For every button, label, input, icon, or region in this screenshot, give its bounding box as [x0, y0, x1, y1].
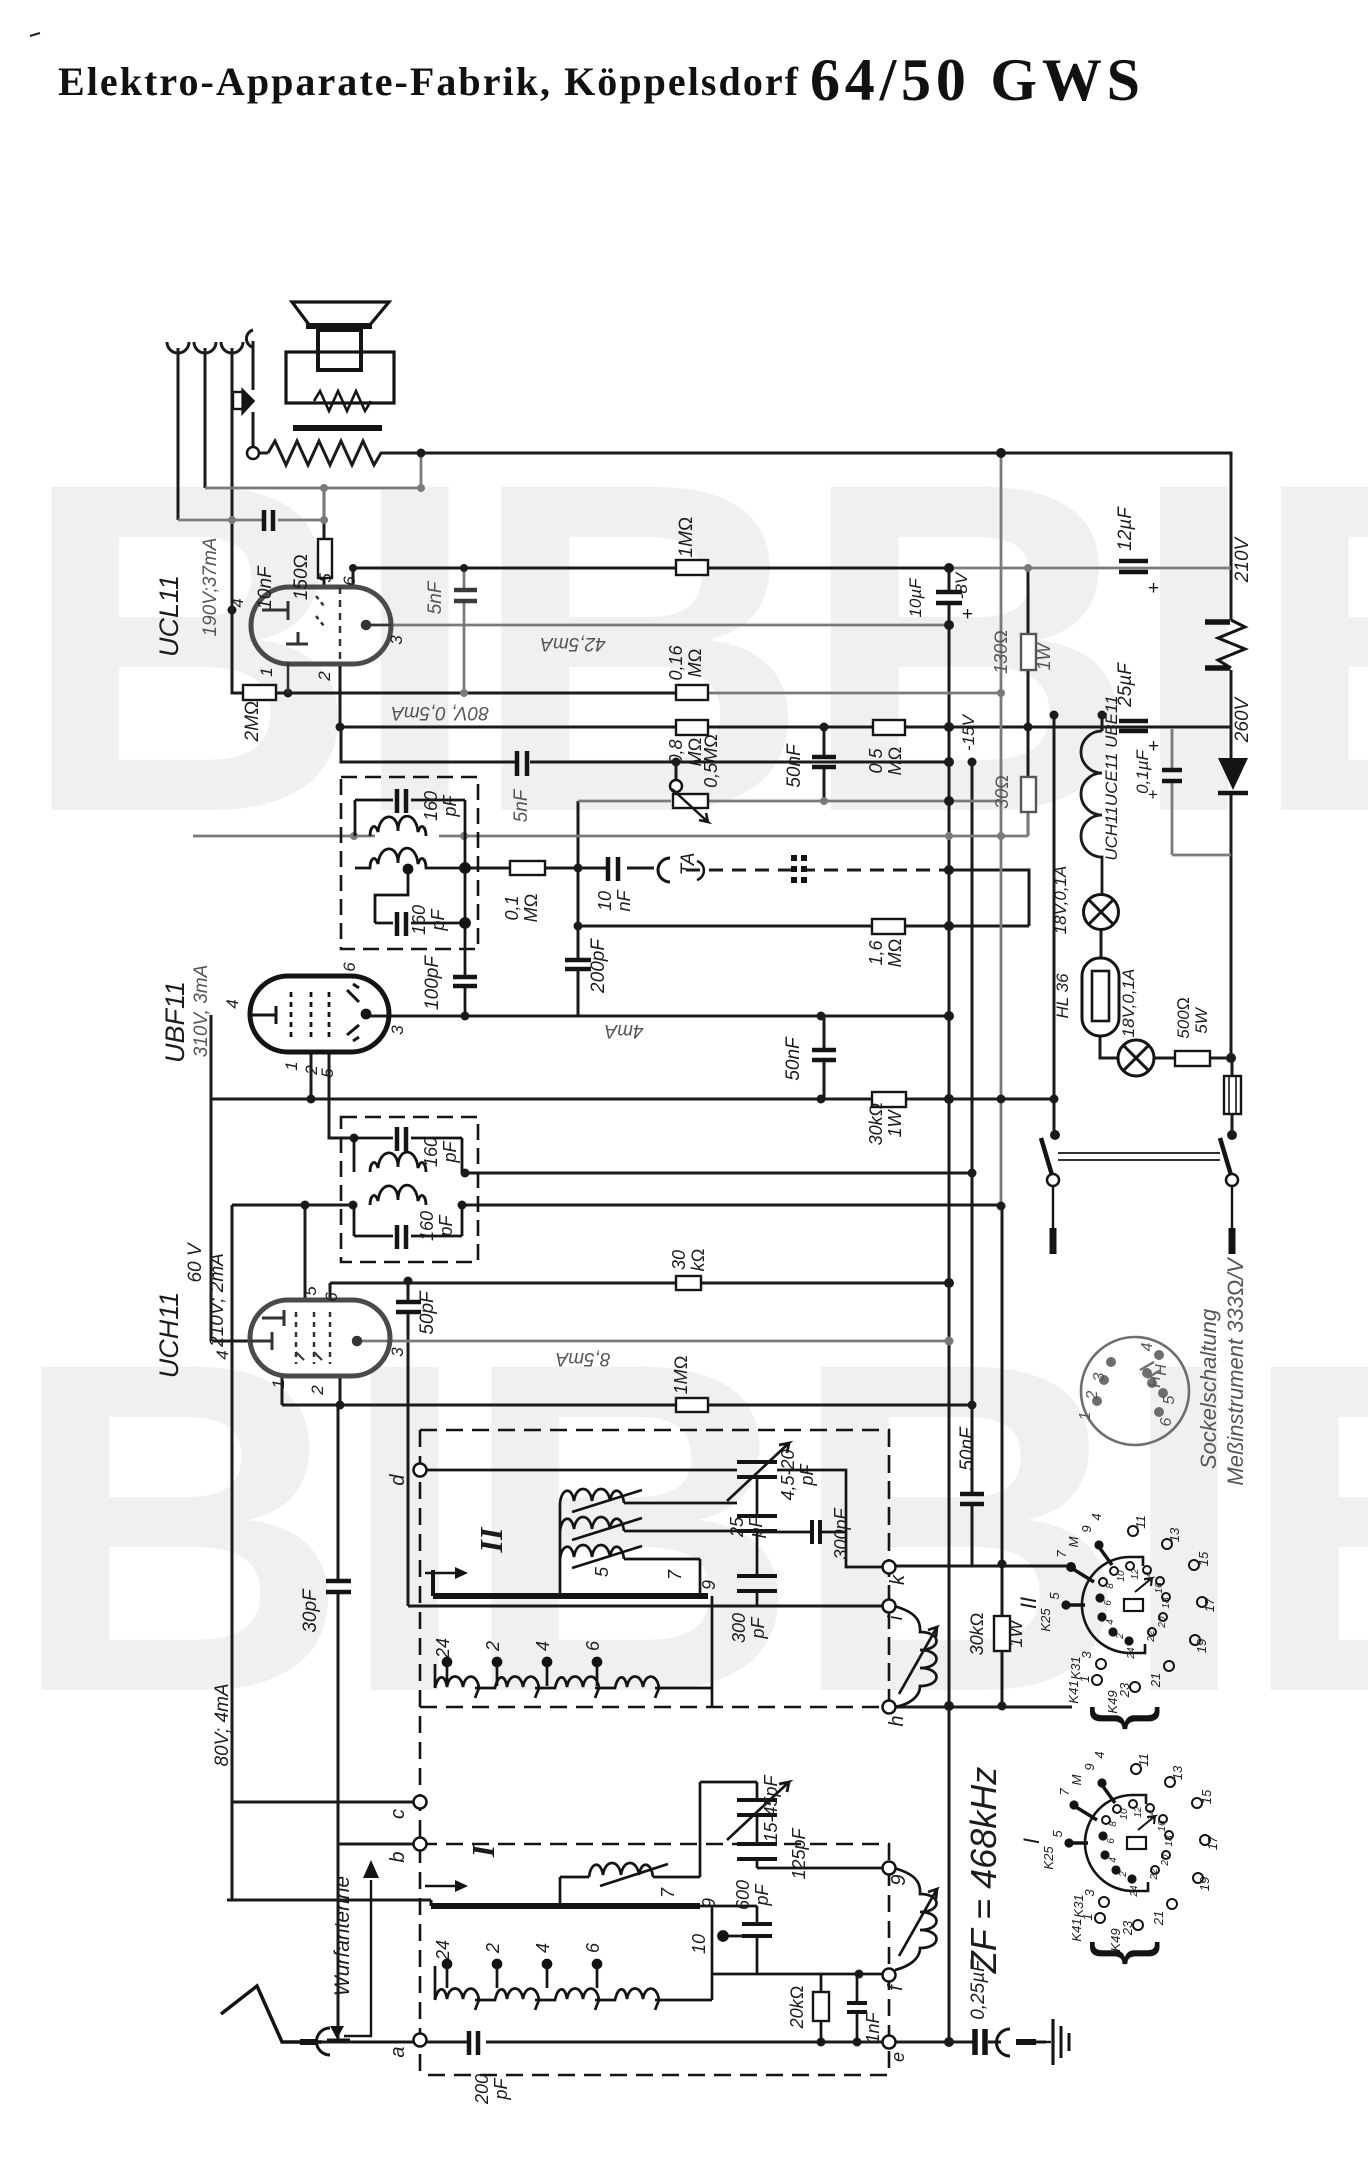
capacitor 10uF electrolytic — [936, 592, 962, 603]
lamp2 to 500ohm to rail — [1154, 1057, 1231, 1060]
node c — [414, 1796, 427, 1809]
output transformer box — [286, 352, 394, 403]
row 1099 — [211, 1098, 1054, 1101]
svg-text:300: 300 — [729, 1613, 749, 1643]
svg-text:e: e — [888, 2052, 908, 2062]
svg-text:4mA: 4mA — [604, 1020, 643, 1041]
vertical x1028 130/30 ohm — [1027, 568, 1030, 836]
svg-text:8: 8 — [1108, 1821, 1119, 1827]
capacitor 300pF lower — [737, 1576, 777, 1591]
svg-text:8,5mA: 8,5mA — [556, 1348, 611, 1369]
svg-text:80V; 4mA: 80V; 4mA — [212, 1683, 233, 1766]
node f — [883, 1969, 896, 1982]
heater chain stub — [1101, 715, 1104, 731]
vertical x1002 lower with 30k resistor — [1001, 1207, 1004, 1707]
svg-text:21: 21 — [1151, 1911, 1166, 1926]
svg-text:50nF: 50nF — [783, 1036, 804, 1081]
svg-text:kΩ: kΩ — [688, 1249, 708, 1272]
pin5 stub UCL / 150 ohm column — [323, 488, 326, 588]
svg-text:160: 160 — [421, 791, 441, 821]
svg-text:13: 13 — [1167, 1527, 1182, 1542]
wire to 300pF — [757, 1470, 883, 1567]
row 868 TA row — [465, 867, 654, 870]
UBF11 internals — [250, 984, 370, 1041]
svg-text:UCH11UCE11 UBE11: UCH11UCE11 UBE11 — [1102, 695, 1121, 860]
svg-text:2MΩ: 2MΩ — [242, 701, 263, 743]
gray row 693 right — [708, 692, 1001, 695]
resistor 1.6MOhm — [872, 919, 905, 934]
row 1706 — [895, 1706, 1072, 1709]
svg-text:310V, 3mA: 310V, 3mA — [191, 965, 212, 1058]
row 762 — [341, 727, 949, 762]
pin6 stub UCL — [352, 568, 355, 588]
arrow band II — [425, 1572, 455, 1575]
svg-text:25: 25 — [727, 1516, 747, 1538]
svg-text:5: 5 — [318, 1068, 337, 1078]
capacitor 25uF electrolytic — [1119, 721, 1148, 731]
svg-text:pF: pF — [752, 1883, 772, 1906]
svg-text:4: 4 — [1089, 1513, 1104, 1520]
svg-text:h: h — [886, 1715, 908, 1726]
svg-text:125pF: 125pF — [789, 1827, 809, 1879]
node h — [883, 1701, 896, 1714]
arrow band I — [425, 1885, 455, 1888]
svg-text:0,5: 0,5 — [866, 748, 886, 774]
svg-text:1MΩ: 1MΩ — [676, 517, 697, 558]
svg-text:23: 23 — [1120, 1920, 1135, 1936]
capacitor 30pF — [326, 1581, 351, 1592]
svg-text:Wurfantenne: Wurfantenne — [331, 1876, 354, 1996]
field coil zigzag — [268, 441, 421, 465]
box I wave band tap dots — [447, 1966, 597, 1988]
svg-text:20: 20 — [1157, 1616, 1168, 1629]
30pF column — [337, 1405, 340, 2042]
IF1 tap — [375, 868, 408, 923]
svg-text:15-45pF: 15-45pF — [761, 1774, 781, 1842]
resistor 20kOhm — [821, 1974, 857, 2042]
svg-text:210V; 2mA: 210V; 2mA — [207, 1253, 228, 1348]
svg-text:6: 6 — [583, 1640, 603, 1651]
earth coupling jack — [996, 2029, 1010, 2056]
svg-text:1,6: 1,6 — [866, 940, 886, 966]
svg-text:Elektro-Apparate-Fabrik, Köppe: Elektro-Apparate-Fabrik, Köppelsdorf — [58, 59, 799, 104]
IF2 bottom cap 160pF — [354, 1205, 462, 1236]
switch link — [1058, 1153, 1220, 1160]
svg-text:{: { — [1077, 1941, 1160, 1966]
UCH pin2 stub — [339, 1376, 342, 1405]
svg-text:MΩ: MΩ — [685, 649, 705, 678]
socket keyway — [1140, 1362, 1161, 1378]
IF2 coil secondary — [370, 1185, 426, 1205]
heater chain bumps — [1081, 731, 1102, 894]
capacitor 50nF second — [812, 1050, 836, 1060]
svg-text:24: 24 — [433, 1940, 453, 1961]
svg-text:300pF: 300pF — [831, 1507, 851, 1559]
TA jack — [658, 858, 670, 882]
wire right rail lower — [1231, 670, 1232, 1133]
svg-text:b: b — [387, 1851, 409, 1862]
svg-text:200pF: 200pF — [588, 938, 609, 994]
capacitor 300pF upper — [812, 1520, 820, 1544]
svg-text:11: 11 — [1133, 1515, 1148, 1529]
svg-text:9: 9 — [699, 1580, 719, 1590]
svg-text:22: 22 — [1146, 1630, 1157, 1643]
svg-text:6: 6 — [583, 1942, 603, 1953]
svg-text:pF: pF — [797, 1463, 817, 1486]
transformer primary zigzag — [314, 391, 371, 411]
svg-text:210V: 210V — [1232, 535, 1253, 583]
svg-text:42,5mA: 42,5mA — [540, 633, 605, 654]
vertical x972 — [894, 762, 972, 1566]
svg-text:II: II — [1016, 1597, 1041, 1609]
node e — [883, 2036, 896, 2049]
svg-text:UBF11: UBF11 — [160, 981, 190, 1063]
gray 5nF1 column — [463, 568, 466, 693]
socket circle Sockelschaltung — [1081, 1337, 1189, 1445]
tuning box II dashed — [420, 1430, 889, 2075]
svg-text:160: 160 — [409, 905, 429, 935]
svg-text:10µF: 10µF — [906, 577, 925, 618]
wafer switch I — [1071, 1785, 1155, 1891]
resistor 130 Ohm 1W — [1021, 634, 1036, 670]
fuse — [1224, 1076, 1241, 1114]
box II wave band tap dots — [447, 1664, 597, 1686]
svg-text:17: 17 — [1202, 1597, 1217, 1612]
oscillator coil II — [894, 1606, 937, 1707]
svg-text:2: 2 — [1115, 1633, 1126, 1640]
svg-text:7: 7 — [1057, 1788, 1072, 1796]
resistor 30kOhm 1W — [872, 1092, 906, 1107]
svg-text:4: 4 — [1105, 1619, 1116, 1625]
svg-text:4: 4 — [1139, 1342, 1156, 1351]
svg-text:500Ω: 500Ω — [1174, 997, 1193, 1038]
box I top coil — [589, 1863, 653, 1877]
IF transformer box 2 — [341, 1117, 478, 1262]
lamp1 to HL36 — [1100, 929, 1103, 958]
row 1900 — [227, 1899, 431, 1902]
row 1564 — [894, 1565, 1071, 1568]
switch blades — [1041, 1138, 1231, 1175]
UCH pin5 stub — [329, 1283, 332, 1300]
svg-text:3: 3 — [1079, 1651, 1094, 1659]
svg-text:i: i — [885, 1615, 907, 1620]
lamp 18V 0.1A first — [1084, 895, 1119, 930]
svg-text:M: M — [1069, 1774, 1084, 1785]
svg-text:4: 4 — [533, 1943, 553, 1953]
svg-text:16: 16 — [1157, 1820, 1168, 1832]
row 568 grid — [353, 567, 949, 570]
row 727 — [340, 664, 1231, 727]
svg-text:pF: pF — [746, 1515, 766, 1538]
magnet bar — [293, 425, 382, 431]
svg-text:II: II — [473, 1526, 509, 1553]
svg-text:K25: K25 — [1038, 1608, 1053, 1632]
capacitor 1nF — [847, 2003, 867, 2012]
row 1606 osc grid — [408, 1605, 883, 1608]
svg-text:{: { — [1077, 1706, 1160, 1731]
svg-text:d: d — [387, 1474, 409, 1486]
gray row 1341 8.5mA — [357, 1340, 949, 1343]
svg-text:2: 2 — [483, 1641, 503, 1652]
svg-text:pF: pF — [491, 2077, 511, 2100]
svg-text:Meßinstrument 333Ω/V: Meßinstrument 333Ω/V — [1223, 1256, 1248, 1486]
svg-text:MΩ: MΩ — [885, 747, 905, 776]
row 1844 to node b — [338, 1843, 414, 1846]
svg-text:Sockelschaltung: Sockelschaltung — [1196, 1308, 1221, 1469]
row 693 screen — [276, 692, 676, 695]
svg-text:18: 18 — [1164, 1835, 1175, 1847]
svg-text:160: 160 — [417, 1211, 437, 1241]
svg-text:3: 3 — [388, 1025, 407, 1035]
svg-text:50nF: 50nF — [784, 743, 805, 788]
svg-text:HL 36: HL 36 — [1053, 973, 1072, 1019]
svg-text:pF: pF — [748, 1616, 768, 1639]
svg-text:5nF: 5nF — [511, 788, 532, 822]
svg-text:2: 2 — [1084, 1390, 1101, 1400]
svg-text:6: 6 — [1103, 1600, 1114, 1606]
resistor 150 Ohm — [318, 539, 332, 578]
svg-text:17: 17 — [1205, 1835, 1220, 1850]
svg-text:160: 160 — [421, 1137, 441, 1167]
heater vertical 1 — [177, 348, 180, 520]
power resistor zigzag with bars — [1205, 620, 1245, 668]
oscillator coil I — [894, 1868, 937, 1970]
heater vertical 3 — [232, 348, 243, 693]
IF1 top cap 160pF — [355, 800, 465, 1016]
svg-text:19: 19 — [1197, 1877, 1212, 1891]
node b — [414, 1838, 427, 1851]
svg-text:1: 1 — [1077, 1675, 1092, 1682]
gray row 625 plate — [366, 624, 949, 627]
svg-text:14: 14 — [1146, 1809, 1157, 1821]
UCH pin6 column — [304, 1205, 307, 1300]
svg-text:18: 18 — [1161, 1597, 1172, 1609]
svg-text:30Ω: 30Ω — [992, 775, 1012, 809]
diode lead — [1230, 729, 1233, 758]
TA row solid right — [949, 870, 1029, 926]
IF2 top cap 160pF — [354, 1138, 462, 1172]
resistor 0.5MOhm — [873, 720, 905, 735]
capacitor 200pF — [565, 960, 591, 969]
svg-text:15: 15 — [1199, 1789, 1214, 1804]
speaker neck — [318, 330, 361, 370]
svg-text:2: 2 — [308, 1385, 327, 1396]
svg-text:1: 1 — [282, 1061, 301, 1070]
capacitor 12uF electrolytic — [1119, 561, 1148, 572]
tube UCL11 — [251, 587, 391, 664]
svg-text:+: + — [962, 604, 973, 625]
capacitor 5nF first — [454, 590, 477, 601]
row 1283 — [330, 1282, 949, 1285]
resistor 30kOhm 1W lower — [994, 1616, 1010, 1651]
svg-text:k: k — [887, 1574, 909, 1585]
svg-text:ZF = 468kHz: ZF = 468kHz — [963, 1767, 1004, 1974]
svg-text:100pF: 100pF — [422, 955, 443, 1010]
capacitor 5nF second — [517, 751, 527, 776]
UCH11 internals — [250, 1310, 361, 1364]
terminal 10 — [719, 1932, 728, 1941]
HL36 to lamp2 — [1100, 1036, 1118, 1058]
antenna symbol — [221, 1986, 322, 2042]
svg-text:260V: 260V — [1232, 695, 1253, 743]
svg-text:150Ω: 150Ω — [291, 554, 312, 600]
svg-text:24: 24 — [1129, 1885, 1140, 1898]
svg-text:1: 1 — [269, 1379, 288, 1388]
wire top rail — [421, 453, 1231, 620]
gray row 568 right — [949, 567, 1231, 570]
svg-text:1W: 1W — [1034, 641, 1054, 670]
svg-text:11: 11 — [1136, 1753, 1151, 1767]
svg-text:80V, 0,5mA: 80V, 0,5mA — [391, 702, 489, 723]
svg-text:6: 6 — [340, 576, 359, 586]
svg-text:10: 10 — [1116, 1570, 1127, 1582]
capacitor 50nF first — [812, 757, 836, 767]
trimmer 15-45pF — [737, 1800, 777, 1815]
svg-text:3: 3 — [1091, 1372, 1108, 1381]
svg-text:5: 5 — [1050, 1830, 1065, 1838]
pot slider column x578 — [577, 801, 580, 1016]
resistor 1MOhm second — [676, 1398, 708, 1412]
UCL11 internals — [262, 587, 391, 693]
vertical x211 UBF pin4 — [211, 1015, 250, 1341]
tube UCH11 — [250, 1300, 390, 1376]
svg-text:30kΩ: 30kΩ — [866, 1103, 886, 1146]
svg-text:a: a — [387, 2046, 409, 2057]
tuning box I dashed — [420, 1844, 889, 2075]
svg-text:0,5MΩ: 0,5MΩ — [701, 734, 721, 788]
svg-text:0,1: 0,1 — [502, 895, 522, 920]
row 1205 — [232, 1204, 1001, 1207]
svg-text:6: 6 — [1158, 1417, 1175, 1426]
resistor 500 Ohm 5W — [1175, 1051, 1210, 1066]
field coil terminal circle — [247, 447, 259, 459]
capacitor 10nF second — [608, 857, 618, 881]
vertical x1054 — [1053, 715, 1056, 1135]
svg-text:18V,0,1A: 18V,0,1A — [1119, 969, 1138, 1038]
svg-text:24: 24 — [433, 1638, 453, 1659]
svg-text:22: 22 — [1149, 1868, 1160, 1881]
capacitor 600pF — [742, 1924, 772, 1936]
box I f row — [712, 1973, 883, 1976]
svg-text:5: 5 — [1161, 1395, 1178, 1404]
tube UBF11 — [250, 976, 389, 1052]
svg-text:4: 4 — [223, 999, 242, 1008]
svg-text:12: 12 — [1133, 1806, 1144, 1818]
Wurfantenne lead — [344, 1880, 371, 2036]
svg-text:K25: K25 — [1041, 1846, 1056, 1870]
svg-text:30kΩ: 30kΩ — [967, 1613, 987, 1656]
svg-text:18V,0,1A: 18V,0,1A — [1051, 866, 1070, 935]
svg-text:1: 1 — [257, 667, 276, 676]
svg-text:4: 4 — [213, 1350, 232, 1359]
IF2 coil primary — [370, 1152, 426, 1172]
capacitor 0.25uF — [975, 2029, 985, 2055]
svg-text:16: 16 — [1154, 1582, 1165, 1594]
gray row 488 — [205, 453, 421, 488]
svg-text:-8V: -8V — [952, 571, 971, 599]
svg-text:3: 3 — [387, 635, 406, 645]
svg-text:2: 2 — [1118, 1871, 1129, 1878]
vertical x232 80V4mA — [231, 1205, 234, 1900]
svg-text:19: 19 — [1194, 1639, 1209, 1653]
wiper stub — [675, 762, 678, 780]
box II coil 2 — [560, 1517, 624, 1531]
svg-text:6: 6 — [340, 962, 359, 972]
box I thick bus — [431, 1903, 700, 1909]
trimmer 4.5-20pF — [737, 1462, 777, 1477]
svg-text:7: 7 — [658, 1887, 678, 1898]
svg-text:pF: pF — [440, 1140, 460, 1163]
node a — [414, 2034, 427, 2047]
gray row 836 — [193, 812, 1028, 836]
gray vertical x1001 — [1000, 453, 1003, 1207]
svg-text:pF: pF — [428, 908, 448, 931]
svg-text:6: 6 — [322, 1292, 341, 1302]
svg-text:TA: TA — [678, 853, 699, 876]
svg-text:1: 1 — [1077, 1412, 1094, 1421]
svg-text:12: 12 — [1130, 1568, 1141, 1580]
svg-text:M: M — [1066, 1536, 1081, 1547]
svg-text:pF: pF — [436, 1214, 456, 1237]
svg-text:UCL11: UCL11 — [154, 575, 184, 657]
svg-text:200: 200 — [472, 2074, 492, 2105]
svg-text:K41: K41 — [1069, 1918, 1084, 1941]
svg-text:60 V: 60 V — [185, 1241, 206, 1282]
svg-text:pF: pF — [440, 794, 460, 817]
resistor 30kOhm second — [676, 1276, 701, 1290]
svg-text:5nF: 5nF — [425, 580, 446, 614]
svg-text:50pF: 50pF — [417, 1290, 438, 1335]
svg-text:4: 4 — [1092, 1751, 1107, 1758]
capacitor 0.1uF — [1162, 770, 1182, 781]
UBF pin1 stub — [310, 1052, 313, 1099]
svg-text:9: 9 — [1082, 1763, 1097, 1770]
svg-text:1nF: 1nF — [863, 2011, 883, 2043]
svg-text:0,1µF: 0,1µF — [1133, 748, 1152, 793]
svg-text:2: 2 — [315, 671, 334, 682]
capacitor 10nF — [264, 510, 273, 531]
TA dashed row — [686, 869, 949, 872]
box II coil 1 — [560, 1489, 624, 1503]
IF1 coil secondary — [355, 848, 465, 868]
svg-text:9: 9 — [699, 1898, 719, 1908]
capacitor 50pF — [396, 1302, 421, 1312]
node d — [414, 1464, 427, 1477]
stray mark top left — [30, 33, 40, 36]
svg-text:7: 7 — [665, 1569, 685, 1580]
box II coil 3 — [560, 1545, 624, 1559]
driver triangle — [243, 391, 253, 412]
heater vertical 2 — [204, 348, 207, 488]
svg-text:K41: K41 — [1066, 1680, 1081, 1703]
svg-text:3: 3 — [388, 1347, 407, 1357]
node i — [883, 1600, 896, 1613]
svg-text:5W: 5W — [1192, 1006, 1211, 1033]
svg-text:UCH11: UCH11 — [154, 1292, 184, 1379]
svg-text:1MΩ: 1MΩ — [671, 1356, 691, 1395]
box II input row from d — [424, 1469, 737, 1472]
svg-text:MΩ: MΩ — [885, 939, 905, 968]
lamp 18V 0.1A second — [1118, 1040, 1154, 1076]
resistor 30 Ohm — [1021, 777, 1036, 812]
speaker cone — [233, 302, 394, 428]
svg-text:4: 4 — [1108, 1857, 1119, 1863]
svg-text:I: I — [1019, 1838, 1044, 1844]
svg-text:24: 24 — [1126, 1647, 1137, 1660]
svg-text:1W: 1W — [885, 1108, 905, 1137]
svg-text:9: 9 — [1079, 1525, 1094, 1532]
antenna plug triangle — [330, 2026, 344, 2039]
